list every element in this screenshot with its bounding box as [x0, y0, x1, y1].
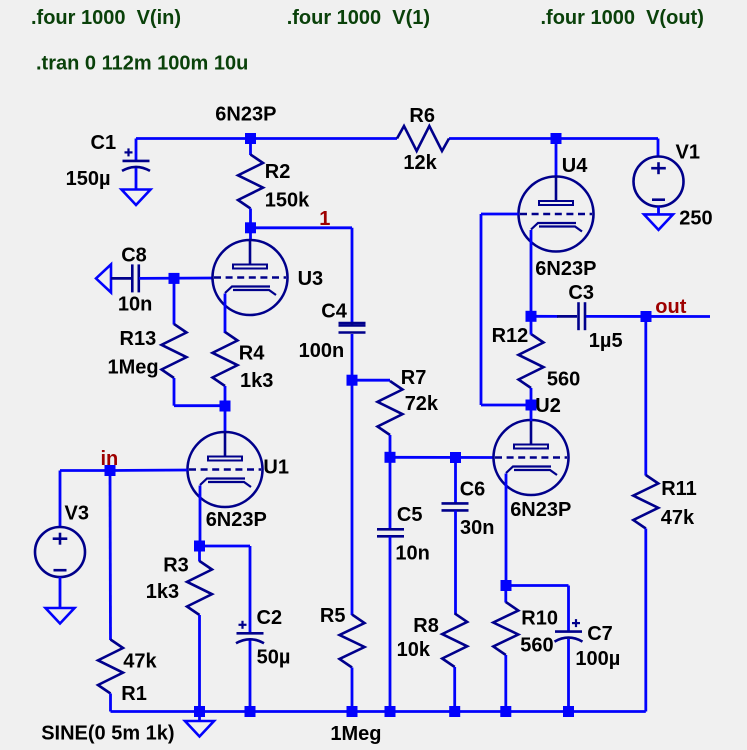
svg-text:U1: U1 — [263, 456, 289, 478]
capacitor C5 — [377, 528, 404, 531]
svg-text:150k: 150k — [265, 189, 310, 211]
wire R3 top lead — [198, 546, 201, 562]
svg-text:72k: 72k — [405, 393, 439, 415]
svg-text:6N23P: 6N23P — [510, 499, 571, 521]
wire flag to C8 — [111, 277, 132, 280]
capacitor C8 — [131, 264, 134, 292]
svg-text:R7: R7 — [401, 367, 427, 389]
svg-text:C8: C8 — [121, 245, 147, 267]
svg-text:R3: R3 — [163, 555, 189, 577]
wire bottom rail — [111, 710, 646, 713]
wire J7 to C2 — [200, 545, 251, 548]
svg-text:6N23P: 6N23P — [206, 509, 267, 531]
resistor R5 — [340, 615, 365, 668]
capacitor C7 — [555, 630, 582, 633]
svg-text:47k: 47k — [123, 650, 157, 672]
svg-text:560: 560 — [547, 368, 580, 390]
svg-text:100µ: 100µ — [575, 648, 620, 670]
wire J14 to C7 — [506, 584, 569, 587]
svg-text:6N23P: 6N23P — [535, 258, 596, 280]
resistor R6 — [397, 126, 449, 151]
svg-text:1k3: 1k3 — [146, 581, 179, 603]
wire J8 down to R5 — [351, 380, 354, 615]
svg-text:U3: U3 — [298, 268, 324, 290]
resistor R13 — [162, 324, 187, 378]
svg-text:50µ: 50µ — [257, 647, 291, 669]
svg-text:12k: 12k — [403, 152, 437, 174]
ground V1 — [644, 214, 673, 230]
svg-text:SINE(0 5m 1k): SINE(0 5m 1k) — [41, 722, 174, 744]
svg-text:30n: 30n — [460, 517, 494, 539]
svg-text:V3: V3 — [65, 502, 89, 524]
svg-text:10n: 10n — [395, 543, 429, 565]
svg-text:.four 1000 V(out): .four 1000 V(out) — [541, 7, 704, 29]
resistor R3 — [187, 561, 212, 615]
svg-text:.tran 0 112m 100m 10u: .tran 0 112m 100m 10u — [36, 53, 248, 75]
svg-text:R2: R2 — [265, 161, 291, 183]
node junction C5/rail — [385, 706, 396, 717]
wire R4 bottom lead — [224, 386, 227, 406]
wire R1 to rail — [109, 694, 112, 712]
wire C6 to R8 — [454, 511, 457, 615]
wire R13 bottom lead — [173, 378, 176, 406]
resistor R10 — [493, 602, 518, 655]
wire in to V3 — [60, 469, 110, 472]
capacitor C6 — [442, 502, 469, 505]
wire U3 plate lead — [249, 228, 252, 241]
wire R10 top lead — [504, 586, 507, 603]
svg-text:10k: 10k — [397, 639, 431, 661]
svg-text:R4: R4 — [239, 343, 265, 365]
wire U4 plate lead — [555, 139, 558, 178]
svg-text:560: 560 — [520, 635, 553, 657]
node junction U2 cathode/R10/C7 — [501, 580, 512, 591]
capacitor C3 — [577, 302, 580, 330]
svg-text:V1: V1 — [676, 141, 700, 163]
wire C6 top lead — [454, 458, 457, 503]
wire C1 to ground — [135, 168, 138, 190]
svg-text:.four 1000 V(1): .four 1000 V(1) — [287, 7, 430, 29]
resistor R4 — [213, 332, 238, 386]
capacitor C4 — [339, 322, 366, 325]
wire U1 grid lead — [110, 469, 188, 472]
wire R5 to rail — [351, 668, 354, 712]
node junction R3/rail/ground — [194, 706, 205, 717]
wire U4 grid to J13 — [481, 404, 531, 407]
svg-text:100n: 100n — [299, 340, 345, 362]
capacitor C2 — [237, 632, 264, 635]
ground rail — [185, 721, 214, 737]
node junction R7/C5/wire — [385, 452, 396, 463]
resistor R8 — [442, 613, 467, 667]
wire R13 to J5 — [174, 404, 225, 407]
node junction C8/R13/U3 grid — [169, 273, 180, 284]
svg-text:C4: C4 — [321, 300, 347, 322]
node junction C2/rail — [245, 706, 256, 717]
svg-text:47k: 47k — [661, 507, 695, 529]
wire R8 to rail — [453, 667, 456, 712]
wire C2 to rail — [249, 641, 252, 712]
svg-text:C1: C1 — [91, 132, 117, 154]
node junction in (V3/R1/U1 grid) — [105, 465, 116, 476]
wire U4 grid down — [480, 214, 483, 405]
node junction R8/rail — [449, 706, 460, 717]
triode U3 — [213, 240, 288, 315]
wire top rail right (R6 to V1) — [449, 137, 658, 140]
wire U3 cathode lead — [224, 294, 227, 334]
voltage source V1 — [634, 157, 684, 207]
node junction C7/rail — [563, 706, 574, 717]
wire V1 ground stem — [657, 207, 660, 215]
svg-text:R1: R1 — [121, 683, 147, 705]
capacitor C1 — [123, 160, 150, 163]
node junction R10/rail — [500, 706, 511, 717]
node junction top-right (U4 plate/top rail) — [551, 133, 562, 144]
triode U2 — [494, 420, 569, 495]
voltage source V3 — [35, 527, 85, 577]
wire U2 cathode lead — [505, 474, 508, 586]
wire C4 to J8 — [351, 334, 354, 380]
svg-text:R10: R10 — [521, 608, 558, 630]
svg-text:1Meg: 1Meg — [330, 723, 381, 745]
wire R2 bottom lead — [249, 209, 252, 228]
wire R12 top lead — [530, 316, 533, 334]
ground V3 — [46, 608, 75, 624]
svg-text:.four 1000 V(in): .four 1000 V(in) — [31, 7, 181, 29]
wire C3 to out — [586, 315, 710, 318]
svg-text:C5: C5 — [397, 504, 423, 526]
wire J8 to R7 — [352, 379, 390, 382]
svg-text:C3: C3 — [568, 282, 594, 304]
svg-text:C6: C6 — [460, 479, 486, 501]
resistor R1 — [98, 640, 123, 694]
node junction R4/R13/U1 plate — [220, 401, 231, 412]
wire R2 top lead — [249, 139, 252, 156]
wire U4 grid left — [481, 213, 519, 216]
svg-text:in: in — [101, 448, 119, 470]
svg-text:6N23P: 6N23P — [215, 104, 276, 126]
wire C7 to rail — [567, 639, 570, 712]
svg-text:250: 250 — [679, 207, 712, 229]
wire R7 bottom lead — [389, 435, 392, 457]
resistor R7 — [378, 381, 403, 435]
wire C1 lead — [135, 139, 138, 161]
node junction 1 (R2/U3 plate/wire) — [245, 222, 256, 233]
wire U1 cathode lead — [199, 486, 202, 547]
svg-text:U4: U4 — [562, 155, 588, 177]
wire node1 horizontal — [251, 226, 353, 229]
wire in down to R1 — [109, 471, 112, 641]
wire node1 down to C4 — [351, 228, 354, 325]
svg-text:R12: R12 — [492, 325, 529, 347]
svg-text:out: out — [655, 296, 686, 318]
wire to U2 grid — [390, 456, 494, 459]
node junction C6 tap — [450, 452, 461, 463]
node junction R5/rail — [347, 706, 358, 717]
svg-text:10n: 10n — [118, 293, 152, 315]
wire U2 plate lead — [530, 405, 533, 421]
node junction U4 cathode/R12/C3 — [526, 311, 537, 322]
svg-text:R8: R8 — [413, 615, 439, 637]
node junction out — [641, 311, 652, 322]
wire R12 bottom lead — [530, 388, 533, 405]
wire V3 to ground — [59, 577, 62, 608]
wire R10 to rail — [504, 655, 507, 712]
node junction top-left (R2/top rail) — [245, 133, 256, 144]
svg-text:R13: R13 — [120, 328, 157, 350]
node junction C4/R7 — [347, 375, 358, 386]
resistor R12 — [519, 334, 544, 388]
wire C8 to junction — [139, 277, 213, 280]
triode U4 — [519, 177, 594, 252]
wire V1 drop — [657, 139, 660, 158]
svg-text:C7: C7 — [587, 623, 613, 645]
svg-text:1µ5: 1µ5 — [589, 330, 623, 352]
port flag in C8 — [96, 264, 111, 292]
svg-text:1Meg: 1Meg — [108, 356, 159, 378]
svg-text:R5: R5 — [320, 605, 346, 627]
wire top rail left (C1 to R6) — [136, 137, 397, 140]
wire C5 top lead — [389, 457, 392, 528]
svg-text:R6: R6 — [409, 105, 435, 127]
svg-text:U2: U2 — [535, 395, 561, 417]
ground C1 — [122, 190, 151, 206]
svg-text:R11: R11 — [661, 478, 697, 500]
wire rail ground stem — [198, 712, 201, 722]
svg-text:150µ: 150µ — [66, 168, 111, 190]
svg-text:C2: C2 — [257, 607, 283, 629]
wire R11 to rail — [644, 529, 647, 712]
node junction R12/U2 plate — [526, 400, 537, 411]
node junction U1 cathode/R3/C2 — [194, 541, 205, 552]
wire C3 left lead — [531, 315, 558, 318]
resistor R2 — [238, 155, 263, 209]
wire U4 cathode lead — [530, 230, 533, 316]
wire R13 top lead — [173, 278, 176, 324]
wire R3 to rail — [198, 615, 201, 712]
svg-text:1k3: 1k3 — [240, 370, 273, 392]
wire C5 bottom lead — [389, 537, 392, 712]
resistor R11 — [633, 475, 658, 529]
wire R11 top lead — [644, 317, 647, 476]
triode U1 — [188, 432, 263, 507]
wire U1 plate lead — [224, 406, 227, 433]
